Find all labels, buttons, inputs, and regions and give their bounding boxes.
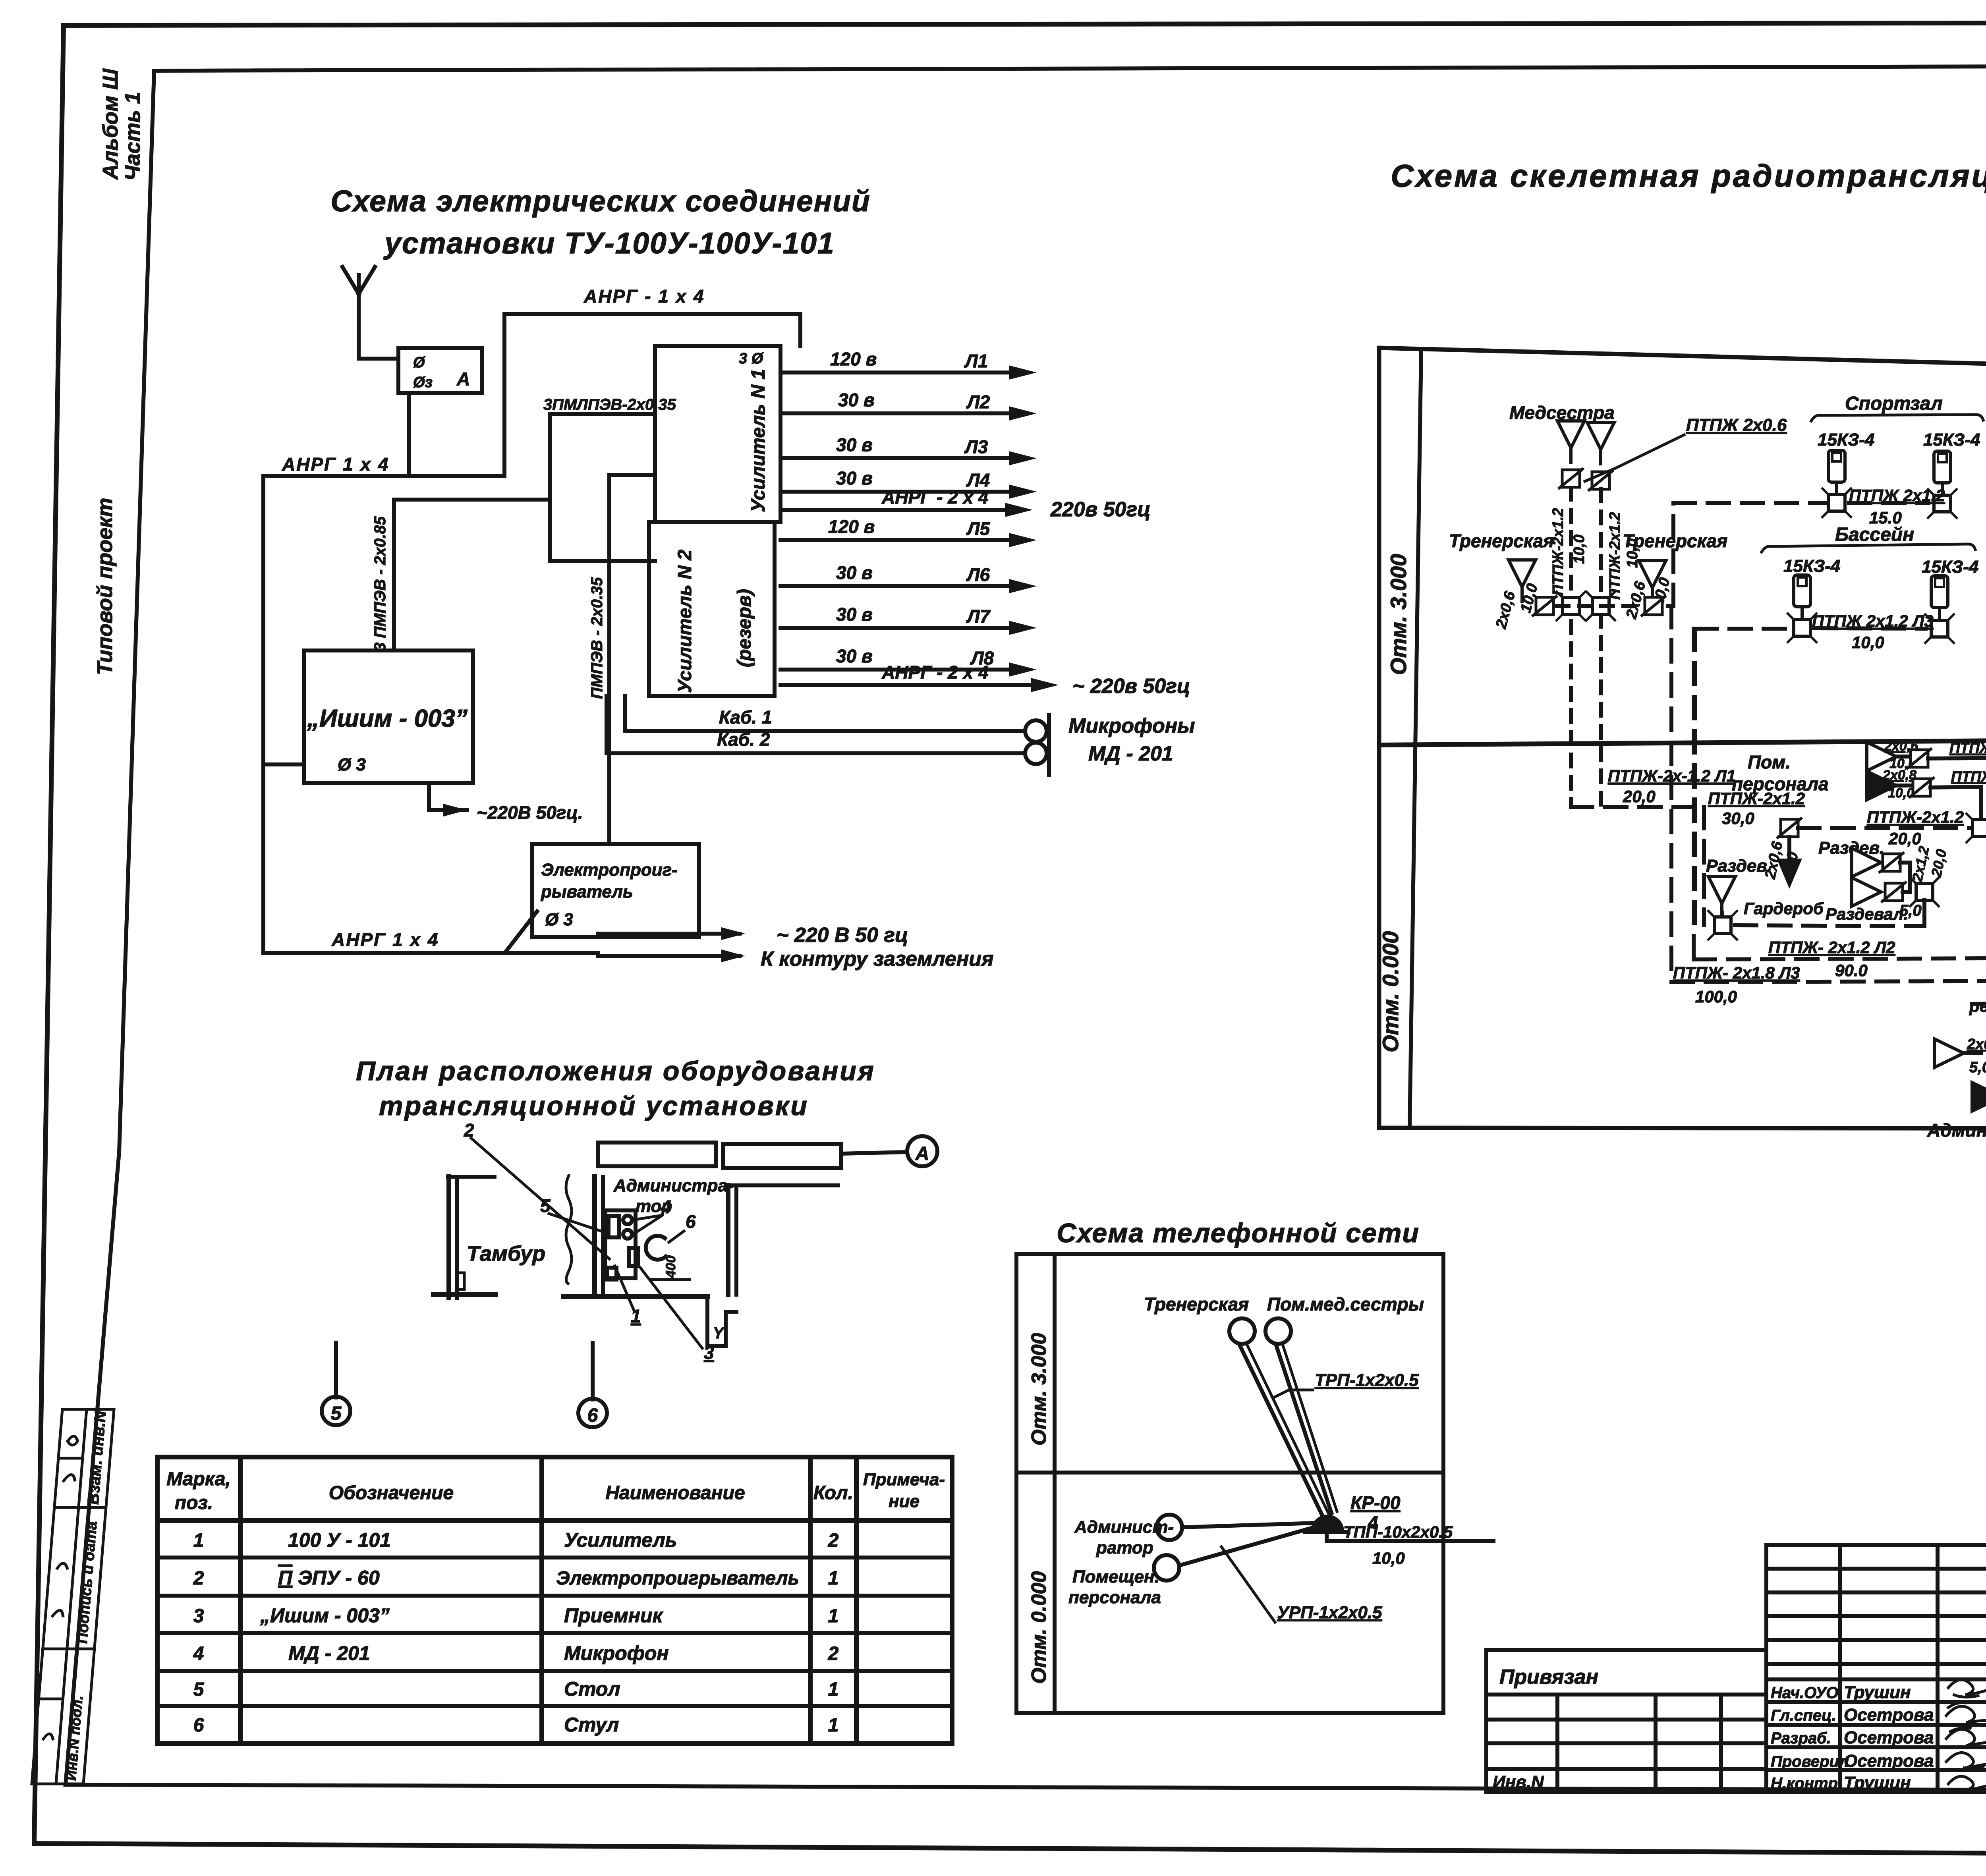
svg-text:Привязан: Привязан (1499, 1666, 1598, 1689)
svg-text:~ 220в 50гц: ~ 220в 50гц (1072, 675, 1190, 698)
output line L2 (780, 390, 1037, 421)
shelf rect left (598, 1143, 716, 1166)
SKELETON LOWER LEVEL (1571, 606, 1986, 1141)
svg-text:Каб. 2: Каб. 2 (717, 729, 770, 750)
receiver item on table (609, 1216, 619, 1237)
trenerskaya left attenuator (1532, 596, 1557, 616)
wire receiver vertical (392, 500, 396, 650)
microphone jack 2 (1025, 743, 1047, 764)
amplifier item 1 (607, 1268, 616, 1280)
junction b2 (1924, 614, 1955, 644)
svg-text:15КЗ-4: 15КЗ-4 (1922, 557, 1978, 577)
signatures squiggles (1948, 1680, 1986, 1697)
TELEPHONE NET SCHEME (1016, 1218, 1493, 1713)
amplifier unit box N1 (655, 346, 780, 522)
level divider horizontal (1379, 738, 1986, 745)
output line L1 (780, 349, 1037, 380)
svg-text:Пом.мед.сестры: Пом.мед.сестры (1267, 1294, 1424, 1314)
svg-text:15КЗ-4: 15КЗ-4 (1818, 430, 1874, 450)
attenuator medsestra 2 (1588, 470, 1613, 491)
wire player feed vertical (550, 414, 655, 561)
middle signature table (1766, 1545, 1986, 1792)
junction s2 (1927, 488, 1957, 519)
trenerskaya right speaker (1639, 561, 1666, 604)
junction s1 (1822, 488, 1852, 518)
svg-text:Схема скелетная радиотранс: Схема скелетная радиотрансляционной сети (1391, 158, 1986, 193)
svg-text:Разраб.: Разраб. (1771, 1729, 1831, 1747)
svg-text:ратор: ратор (1096, 1538, 1153, 1558)
svg-text:Схема телефонной сети: Схема телефонной сети (1057, 1218, 1420, 1248)
attenuator stem (1787, 837, 1791, 858)
svg-text:~220В 50гц.: ~220В 50гц. (477, 802, 583, 823)
line to corner 1 (1928, 758, 1986, 821)
bassein bracket (1762, 544, 1975, 552)
wire ANRG 1x4 left run (263, 476, 504, 953)
svg-text:15КЗ-4: 15КЗ-4 (1783, 556, 1840, 576)
svg-text:персонала: персонала (1068, 1588, 1161, 1607)
svg-text:1: 1 (828, 1715, 839, 1736)
svg-text:Стул: Стул (564, 1714, 619, 1736)
svg-text:Приемник: Приемник (564, 1604, 664, 1627)
svg-text:АНРГ - 2 x 4: АНРГ - 2 x 4 (881, 487, 989, 508)
horn razdev 1 (1852, 848, 1881, 877)
sportzal feeder dashed (1673, 501, 1827, 505)
svg-text:(резерв): (резерв) (734, 589, 755, 667)
svg-text:Усилитель N 2: Усилитель N 2 (674, 550, 695, 693)
phone level column (1053, 1254, 1057, 1713)
horn personala 1 (1867, 742, 1896, 771)
svg-text:1: 1 (828, 1568, 839, 1589)
svg-text:Осетрова: Осетрова (1844, 1728, 1934, 1747)
svg-text:3 Ø: 3 Ø (739, 350, 764, 367)
trenerskaya right attenuator (1641, 596, 1666, 616)
svg-text:10,0: 10,0 (1852, 633, 1884, 652)
svg-text:Марка,: Марка, (166, 1469, 231, 1490)
wire box A down (407, 393, 411, 476)
svg-text:3 ПМПЭВ - 2х0.85: 3 ПМПЭВ - 2х0.85 (371, 516, 389, 652)
svg-text:1: 1 (828, 1679, 839, 1700)
amplifier unit box N2 (649, 522, 775, 696)
svg-text:ПТПЖ- 2х1.8 Л3: ПТПЖ- 2х1.8 Л3 (1673, 963, 1800, 982)
svg-text:резерв: резерв (1969, 997, 1986, 1015)
svg-text:Инв.N: Инв.N (1493, 1772, 1544, 1792)
junction on riser 1 (1556, 591, 1586, 621)
microphone jack 1 (1025, 720, 1047, 742)
svg-text:ние: ние (889, 1492, 920, 1511)
svg-text:ПТПЖ-2х1.2: ПТПЖ-2х1.2 (1607, 512, 1623, 600)
wire receiver 220V output (429, 783, 467, 810)
horn razdev 2 (1852, 878, 1881, 906)
svg-text:Л1: Л1 (964, 351, 988, 371)
wire antenna to box A (359, 357, 398, 361)
tel line trener to KR (1239, 1344, 1323, 1516)
row lines (157, 1518, 952, 1523)
amplifier input L3 (1671, 981, 1986, 982)
svg-text:Отм. 0.000: Отм. 0.000 (1028, 1571, 1051, 1684)
svg-text:МД - 201: МД - 201 (1088, 742, 1173, 765)
razdev connector (1900, 863, 1910, 892)
sportzal bracket (1811, 415, 1983, 421)
bus 20.0 dashed (1798, 826, 1970, 830)
svg-text:Отм. 3.000: Отм. 3.000 (1386, 554, 1411, 675)
wardrobe junction (1708, 910, 1738, 940)
svg-text:П ЭПУ - 60: П ЭПУ - 60 (278, 1567, 380, 1589)
svg-text:Администра-: Администра- (613, 1176, 733, 1195)
tel set med sestra (1265, 1318, 1291, 1344)
svg-text:Гл.спец.: Гл.спец. (1771, 1707, 1836, 1724)
svg-text:Раздев.: Раздев. (1706, 856, 1772, 876)
output line L8 (780, 646, 1037, 677)
svg-text:Микрофоны: Микрофоны (1068, 714, 1195, 737)
svg-text:Ø 3: Ø 3 (545, 910, 573, 929)
floor line bottom left (433, 1292, 495, 1297)
svg-text:Усилитель N 1: Усилитель N 1 (748, 369, 769, 512)
svg-text:Ø: Ø (413, 354, 425, 371)
TITLE BLOCK (1486, 1545, 1986, 1853)
leader from player (505, 911, 537, 952)
svg-text:Усилитель: Усилитель (564, 1529, 677, 1551)
svg-text:Бассейн: Бассейн (1835, 524, 1914, 545)
output line L7 (780, 604, 1037, 635)
svg-text:100 У - 101: 100 У - 101 (288, 1529, 391, 1551)
svg-text:МД - 201: МД - 201 (288, 1642, 370, 1664)
svg-text:Помещен.: Помещен. (1072, 1567, 1159, 1586)
svg-text:2: 2 (193, 1568, 204, 1589)
funnel below attenuator (1777, 859, 1802, 889)
svg-text:АНРГ - 1 x 4: АНРГ - 1 x 4 (583, 286, 705, 307)
bassein feeder dashed (1695, 627, 1789, 631)
junction on riser 2 (1586, 591, 1616, 621)
svg-text:Электропроигрыватель: Электропроигрыватель (556, 1568, 799, 1589)
svg-text:100,0: 100,0 (1695, 987, 1737, 1006)
bassein link line (1814, 628, 1926, 629)
svg-text:Л5: Л5 (966, 518, 991, 539)
svg-text:30 в: 30 в (836, 434, 873, 455)
svg-text:ПТПЖ 2х1.2: ПТПЖ 2х1.2 (1849, 486, 1945, 505)
svg-text:3: 3 (704, 1342, 714, 1363)
trenerskaya bus dashed (1557, 604, 1670, 608)
wire receiver feed horizontal (394, 498, 550, 502)
svg-text:1: 1 (828, 1606, 839, 1627)
box A (antenna amplifier) (398, 348, 482, 393)
tel set administrator (1157, 1515, 1182, 1540)
LAYOUT PLAN (322, 1056, 937, 1427)
microphone item 4b (623, 1230, 632, 1239)
svg-text:Трушин: Трушин (1844, 1683, 1911, 1702)
svg-text:ПТПЖ-2х1.2: ПТПЖ-2х1.2 (1951, 768, 1986, 785)
microphone item 4a (623, 1216, 632, 1224)
output line L3 (780, 434, 1037, 465)
tel line personnel to KR (1179, 1526, 1319, 1565)
left table privyazan (1486, 1650, 1766, 1792)
LEFT MARGIN (32, 68, 145, 1784)
svg-text:АНРГ - 2 x 4: АНРГ - 2 x 4 (881, 662, 989, 683)
svg-text:ПТПЖ 2х1.2 Л3: ПТПЖ 2х1.2 Л3 (1812, 612, 1934, 630)
wall tambour left (446, 1177, 451, 1298)
svg-text:ПТПЖ-2х1.2: ПТПЖ-2х1.2 (1867, 808, 1964, 826)
svg-text:2х0,6: 2х0,6 (1967, 1036, 1986, 1053)
svg-text:Ø 3: Ø 3 (338, 755, 366, 774)
wardrobe funnel (1708, 876, 1735, 919)
svg-text:ТРП-1х2х0.5: ТРП-1х2х0.5 (1315, 1370, 1419, 1390)
svg-text:План расположения оборудован: План расположения оборудования (356, 1056, 875, 1086)
administrator horn filled (1972, 1083, 1986, 1111)
svg-text:Администратор: Администратор (1927, 1120, 1986, 1141)
column lines (238, 1457, 243, 1743)
svg-text:Нач.ОУО: Нач.ОУО (1771, 1684, 1838, 1702)
svg-text:15КЗ-4: 15КЗ-4 (1923, 430, 1980, 450)
svg-text:рыватель: рыватель (541, 882, 633, 901)
player box (532, 844, 699, 937)
svg-text:30 в: 30 в (836, 646, 873, 666)
svg-text:УРП-1х2х0.5: УРП-1х2х0.5 (1277, 1603, 1382, 1622)
svg-text:Часть 1: Часть 1 (121, 92, 145, 181)
svg-text:20,0: 20,0 (1623, 787, 1656, 806)
svg-text:Спортзал: Спортзал (1845, 393, 1943, 414)
bus L1 dashed (1571, 805, 1704, 809)
svg-text:ПТПЖ-2х1.2: ПТПЖ-2х1.2 (1550, 508, 1567, 596)
svg-text:120 в: 120 в (830, 349, 877, 369)
svg-text:Стол: Стол (564, 1678, 620, 1700)
wire to receiver left (263, 762, 304, 766)
output line L4 (780, 468, 1037, 499)
svg-text:Пом.: Пом. (1748, 752, 1791, 772)
attenuator central (1777, 818, 1802, 838)
attenuator personala 1 (1907, 748, 1932, 769)
svg-text:30 в: 30 в (836, 562, 873, 583)
svg-text:Микрофон: Микрофон (564, 1642, 669, 1664)
wire ground contour (263, 953, 740, 956)
amplifier input L2 (1694, 958, 1986, 959)
attenuator medsestra 1 (1558, 468, 1584, 489)
tel set personnel (1154, 1555, 1179, 1581)
svg-text:6: 6 (686, 1211, 696, 1232)
svg-text:Раздевал.: Раздевал. (1826, 905, 1908, 923)
main box (1379, 348, 1986, 1129)
microphone cable 1 (625, 696, 1025, 731)
output line 220V reserve (780, 662, 1190, 698)
player item on table (629, 1248, 638, 1266)
svg-text:2х0,8: 2х0,8 (1882, 768, 1916, 783)
svg-text:трансляционной установки: трансляционной установки (379, 1091, 809, 1121)
bottom horn (1934, 1039, 1964, 1067)
junction b1 (1787, 613, 1817, 643)
svg-text:Альбом Ш: Альбом Ш (99, 68, 122, 180)
junction razdev (1909, 877, 1940, 907)
svg-text:1: 1 (193, 1530, 204, 1551)
svg-text:120 в: 120 в (828, 516, 875, 537)
svg-text:10,0: 10,0 (1372, 1549, 1405, 1567)
svg-text:Л3: Л3 (964, 436, 988, 457)
riser L3 (1669, 606, 1673, 982)
amplifier input L4 (1972, 1003, 1986, 1004)
attenuator razdev 2 (1881, 882, 1907, 902)
svg-text:установки ТУ-100У-100У-101: установки ТУ-100У-100У-101 (383, 226, 835, 260)
trenerskaya left speaker (1509, 560, 1536, 603)
svg-text:АНРГ 1 x 4: АНРГ 1 x 4 (331, 929, 439, 950)
svg-text:ТПП-10х2х0.5: ТПП-10х2х0.5 (1343, 1523, 1453, 1541)
RADIO NET SKELETON SCHEME (1378, 158, 1986, 1129)
horn personala 2 filled (1867, 771, 1896, 800)
svg-text:Отм. 0.000: Отм. 0.000 (1378, 931, 1403, 1052)
medsestra risers dashed (1569, 488, 1573, 805)
svg-text:6: 6 (587, 1405, 598, 1426)
column speaker b2 (1931, 576, 1948, 622)
chair item 6 (646, 1236, 666, 1260)
svg-text:10,0: 10,0 (1571, 535, 1588, 564)
EQUIPMENT TABLE (157, 1457, 952, 1743)
svg-text:~ 220 В 50 гц: ~ 220 В 50 гц (777, 924, 908, 947)
svg-text:Отм. 3.000: Отм. 3.000 (1028, 1333, 1051, 1446)
equipment table item 5 (605, 1210, 636, 1278)
distribution box KR-00 (1311, 1515, 1344, 1531)
svg-text:„Ишим - 003”: „Ишим - 003” (307, 705, 468, 732)
wardrobe bus dashed (1735, 925, 1924, 926)
ceiling speaker medsestra 2 (1587, 423, 1614, 465)
svg-text:Л6: Л6 (966, 564, 990, 585)
phone box (1016, 1254, 1443, 1713)
receiver box Ishim-003 (304, 650, 473, 783)
svg-text:„Ишим - 003”: „Ишим - 003” (260, 1604, 390, 1627)
svg-text:4: 4 (193, 1643, 204, 1664)
shelf rect right (723, 1144, 841, 1168)
svg-text:АНРГ 1 x 4: АНРГ 1 x 4 (282, 454, 389, 475)
svg-text:Схема электрических соединен: Схема электрических соединений (330, 184, 871, 218)
table outer box (157, 1457, 952, 1743)
riser L2 from bassein (1692, 629, 1696, 959)
svg-text:ПТПЖ-2х1.2: ПТПЖ-2х1.2 (1949, 740, 1986, 756)
svg-text:ПМПЭВ - 2х0.35: ПМПЭВ - 2х0.35 (588, 577, 606, 699)
svg-text:Кол.: Кол. (813, 1482, 853, 1504)
svg-text:6: 6 (193, 1715, 204, 1736)
svg-text:Типовой проект: Типовой проект (93, 498, 117, 675)
output line L5 (780, 516, 1037, 547)
svg-text:30 в: 30 в (836, 604, 873, 625)
svg-text:А: А (915, 1143, 929, 1164)
svg-text:2: 2 (464, 1120, 474, 1141)
microphone cable 2 (607, 696, 1025, 753)
cable TPP-10x2x0.5 (1327, 1532, 1493, 1541)
ceiling speaker medsestra 1 (1557, 421, 1584, 464)
line to corner 2 (1930, 787, 1981, 819)
svg-text:Н.контр: Н.контр (1771, 1775, 1838, 1792)
svg-text:поз.: поз. (175, 1492, 213, 1513)
wall center (592, 1177, 597, 1297)
svg-text:5: 5 (331, 1403, 342, 1424)
node A circle (907, 1136, 937, 1166)
svg-text:ПТПЖ 2х0.6: ПТПЖ 2х0.6 (1686, 415, 1787, 435)
svg-text:КР-00: КР-00 (1350, 1492, 1401, 1513)
leader to node A (841, 1152, 907, 1154)
svg-text:Øз: Øз (413, 374, 433, 391)
svg-text:30 в: 30 в (838, 390, 875, 410)
column speaker b1 (1794, 575, 1810, 621)
CIRCUIT 1 : electrical connections scheme TU-100U (263, 184, 1195, 971)
svg-text:5,0: 5,0 (1969, 1059, 1986, 1076)
attenuator razdev 1 (1879, 852, 1904, 873)
svg-text:персонала: персонала (1732, 774, 1829, 794)
svg-text:Каб. 1: Каб. 1 (719, 707, 772, 728)
svg-text:Осетрова: Осетрова (1844, 1705, 1934, 1725)
wardrobe riser dashed (1702, 807, 1706, 925)
svg-text:5: 5 (193, 1679, 205, 1700)
svg-text:2: 2 (828, 1530, 839, 1551)
stamp strip (32, 1409, 114, 1784)
svg-text:Обозначение: Обозначение (329, 1482, 454, 1504)
svg-text:30 в: 30 в (836, 468, 873, 488)
wire 220V mains bottom (598, 934, 740, 937)
svg-text:Проверил: Проверил (1771, 1753, 1849, 1770)
output line 220V feed (780, 487, 1151, 521)
svg-text:К контуру заземления: К контуру заземления (761, 948, 994, 971)
sportzal riser dashed up (1671, 503, 1675, 606)
svg-text:Y: Y (713, 1324, 725, 1342)
antenna (342, 267, 375, 359)
svg-text:Л2: Л2 (966, 392, 990, 412)
floor line bottom center (564, 1294, 707, 1299)
svg-text:Осетрова: Осетрова (1844, 1751, 1934, 1771)
section mark 6 (591, 1343, 595, 1399)
tel set trenerskaya (1229, 1318, 1255, 1344)
svg-text:Электропроиг-: Электропроиг- (541, 860, 678, 880)
junction personala a (1966, 813, 1986, 843)
svg-text:Тамбур: Тамбур (467, 1242, 545, 1266)
column speaker s1 (1828, 450, 1845, 496)
svg-text:ПТПЖ- 2х1.2 Л2: ПТПЖ- 2х1.2 Л2 (1768, 938, 1895, 957)
dimension 400 (651, 1278, 690, 1281)
svg-text:Тренерская: Тренерская (1449, 531, 1554, 551)
svg-text:Тренерская: Тренерская (1144, 1294, 1249, 1314)
section mark 5 (334, 1343, 338, 1397)
svg-text:Примеча-: Примеча- (863, 1470, 945, 1489)
output line L6 (780, 562, 1037, 593)
phone level divider (1016, 1471, 1443, 1475)
tel line admin to KR (1182, 1523, 1315, 1527)
svg-text:Наименование: Наименование (605, 1482, 745, 1504)
svg-text:3: 3 (193, 1606, 204, 1627)
tel line med to KR (1276, 1344, 1331, 1513)
attenuator personala 2 (1909, 777, 1934, 798)
wall right (726, 1185, 730, 1295)
sportzal link line (1849, 503, 1928, 503)
svg-text:30,0: 30,0 (1722, 809, 1754, 828)
wall break wavy line (566, 1175, 572, 1283)
svg-text:2: 2 (828, 1643, 839, 1664)
wire ANRG-1x4 top run (504, 314, 800, 476)
column speaker s2 (1934, 451, 1951, 497)
svg-text:220в 50гц: 220в 50гц (1050, 498, 1151, 521)
svg-text:400: 400 (663, 1255, 678, 1278)
svg-text:90.0: 90.0 (1835, 961, 1868, 980)
level column divider (1410, 349, 1421, 1128)
svg-text:Трушин: Трушин (1844, 1773, 1911, 1793)
svg-text:А: А (456, 369, 470, 389)
bassein riser dashed (1693, 629, 1697, 925)
svg-text:Л7: Л7 (966, 606, 991, 627)
lower right wall step (707, 1297, 736, 1346)
microphone bracket (1047, 715, 1051, 775)
svg-text:Гардероб: Гардероб (1744, 899, 1824, 918)
